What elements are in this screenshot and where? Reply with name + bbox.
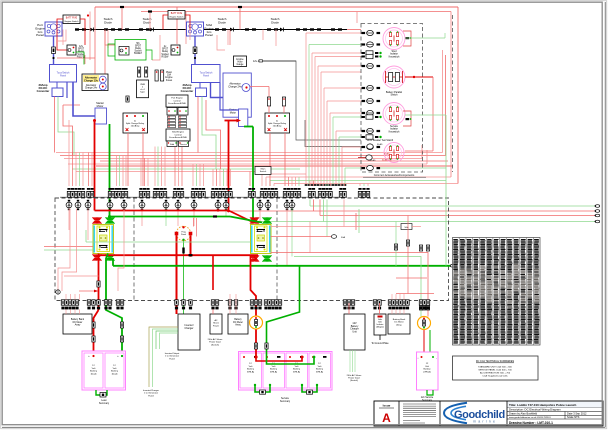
svg-text:30 AD: 30 AD — [377, 143, 383, 146]
svg-text:Panel: Panel — [148, 395, 154, 397]
svg-text:(VRLA): (VRLA) — [247, 370, 254, 373]
svg-text:(Maybe): (Maybe) — [376, 327, 384, 329]
svg-text:Charge 12v: Charge 12v — [84, 78, 99, 82]
svg-text:Charger: Charger — [184, 327, 193, 330]
svg-text:CCA: Supplied: CCA: Supplied Lead Cells — [482, 375, 508, 378]
svg-text:10A: 10A — [167, 74, 172, 77]
svg-text:Keyswitch: Keyswitch — [389, 130, 400, 133]
svg-text:Power Input: Power Input — [348, 377, 360, 380]
svg-text:www.goodchildmarine.co.uk 014: www.goodchildmarine.co.uk 01493 782301 — [509, 416, 551, 419]
svg-text:Switch: Switch — [260, 170, 267, 173]
svg-text:Battery: Battery — [270, 368, 278, 371]
svg-text:Title: Loddin 747-010 Hampshir: Title: Loddin 747-010 Hampshire Police L… — [509, 403, 576, 407]
svg-text:100 Amp: 100 Amp — [131, 125, 140, 128]
svg-text:marine: marine — [473, 420, 497, 424]
svg-text:Split Charge Relay: Split Charge Relay — [268, 122, 287, 125]
svg-text:30 AD: 30 AD — [370, 159, 376, 162]
svg-text:Battery: Battery — [316, 368, 324, 371]
svg-text:Battery Bank: Battery Bank — [71, 318, 85, 321]
svg-text:Battery: Battery — [424, 368, 432, 371]
svg-text:Charge 24v: Charge 24v — [85, 87, 98, 90]
svg-text:A: A — [382, 411, 391, 425]
svg-text:Service: Service — [180, 144, 188, 146]
svg-text:1 to Generator: 1 to Generator — [165, 355, 179, 358]
svg-text:Fuse Assm ACME: Fuse Assm ACME — [168, 102, 186, 105]
svg-text:100 Amp: 100 Amp — [273, 125, 282, 128]
svg-text:Volt: Volt — [318, 365, 322, 368]
svg-text:Engine Switch: Engine Switch — [170, 15, 185, 18]
svg-text:RS5W: RS5W — [162, 55, 170, 58]
svg-text:Panel: Panel — [36, 33, 44, 37]
svg-text:30 AD wire: 30 AD wire — [382, 159, 393, 162]
svg-text:Power Input: Power Input — [209, 341, 221, 344]
svg-text:Battery: Battery — [90, 370, 98, 373]
svg-text:Keyswitch: Keyswitch — [389, 55, 400, 58]
svg-text:AC: AC — [214, 319, 217, 322]
svg-text:GFCI Breaker Test Switch: GFCI Breaker Test Switch — [367, 139, 394, 142]
svg-text:RS5711: RS5711 — [77, 55, 86, 58]
svg-text:Volt: Volt — [295, 365, 299, 368]
svg-text:30 AD: 30 AD — [384, 153, 390, 156]
svg-text:Issue: Issue — [383, 404, 391, 408]
svg-text:SERVICE PANEL CCA: 600 +: SERVICE PANEL CCA: 600 + 700 — [478, 369, 512, 372]
svg-text:Diode: Diode — [104, 21, 112, 25]
svg-text:Battery: Battery — [247, 368, 255, 371]
svg-text:Engine Switch: Engine Switch — [65, 20, 80, 23]
svg-text:50A: 50A — [341, 236, 345, 239]
svg-text:Description: DC Electrical Wir: Description: DC Electrical Wiring Diagra… — [509, 408, 561, 412]
svg-text:Panel: Panel — [60, 75, 67, 78]
svg-text:Volt: Volt — [113, 367, 117, 370]
svg-text:Stbd: Stbd — [170, 143, 174, 146]
svg-text:(Switch): (Switch) — [350, 379, 358, 382]
svg-text:Array: Array — [75, 324, 81, 327]
svg-text:240v AC Shore: 240v AC Shore — [347, 374, 362, 377]
svg-text:STANDARD UNIT CCA: 600 +: STANDARD UNIT CCA: 600 + 600 — [478, 366, 513, 369]
svg-text:DC Meter: DC Meter — [73, 321, 83, 324]
svg-text:5920E7: 5920E7 — [134, 53, 143, 55]
svg-text:Common Accessories/Components: Common Accessories/Components — [374, 173, 415, 177]
svg-text:Inverter/Charger: Inverter/Charger — [143, 389, 159, 392]
svg-text:To Ground Plate: To Ground Plate — [371, 342, 389, 345]
svg-text:Converter: Converter — [181, 89, 194, 93]
svg-text:Power: Power — [213, 324, 219, 327]
svg-text:Battery Bank: Battery Bank — [393, 318, 406, 321]
svg-text:Panel: Panel — [181, 234, 187, 236]
svg-text:Volt: Volt — [92, 367, 96, 370]
svg-text:(VRLA): (VRLA) — [316, 370, 323, 373]
svg-text:(lead): (lead) — [91, 373, 97, 375]
svg-text:Main: Main — [261, 169, 267, 171]
svg-text:(VRLA): (VRLA) — [293, 370, 300, 373]
svg-text:Panel: Panel — [203, 75, 210, 78]
svg-text:Battery: Battery — [111, 370, 119, 373]
svg-text:Fuse Assm ACME: Fuse Assm ACME — [169, 136, 187, 139]
svg-text:Unit: Unit — [352, 330, 357, 333]
svg-text:Diode: Diode — [218, 21, 226, 25]
svg-text:Control: Control — [174, 133, 182, 136]
svg-text:Switch: Switch — [390, 94, 398, 97]
svg-text:Charge 24v: Charge 24v — [228, 85, 242, 89]
svg-text:Control: Control — [173, 99, 181, 102]
svg-text:Port Engine: Port Engine — [171, 97, 183, 100]
svg-text:Array: Array — [235, 324, 241, 327]
svg-text:Stbd Engine: Stbd Engine — [172, 131, 185, 134]
svg-text:(Switch): (Switch) — [211, 343, 219, 346]
svg-text:Drawn by Alan Bushfield: Drawn by Alan Bushfield — [509, 412, 538, 416]
svg-text:Battery: Battery — [234, 318, 242, 321]
svg-text:BATT FIVE: BATT FIVE — [66, 16, 78, 19]
svg-text:(lead): (lead) — [112, 373, 118, 375]
svg-text:(VRLA): (VRLA) — [270, 370, 277, 373]
svg-text:Volt: Volt — [249, 365, 253, 368]
svg-text:AC DISTRIBUTION: 60: AC DISTRIBUTION: 600 + 700 — [480, 372, 511, 375]
svg-text:Inverter/Output: Inverter/Output — [165, 352, 180, 355]
svg-text:Panel: Panel — [169, 358, 175, 360]
svg-text:Type: Type — [140, 92, 146, 94]
svg-text:Shore: Shore — [213, 322, 220, 325]
svg-text:Converter: Converter — [37, 89, 50, 93]
svg-text:Date 3 Sep 2012: Date 3 Sep 2012 — [567, 412, 587, 416]
svg-text:Panel: Panel — [205, 33, 213, 37]
svg-text:(VRLA): (VRLA) — [423, 370, 430, 373]
svg-text:Hour: Hour — [238, 61, 243, 64]
svg-text:1 to Generator: 1 to Generator — [144, 392, 158, 395]
svg-text:BATT FIVE: BATT FIVE — [171, 12, 183, 15]
svg-text:Summary: Summary — [99, 402, 110, 405]
svg-text:Diode: Diode — [271, 21, 279, 25]
svg-text:DC Meter: DC Meter — [233, 321, 243, 324]
svg-text:240v AC Shore: 240v AC Shore — [208, 338, 223, 341]
svg-text:Fuses: Fuses — [166, 80, 173, 82]
svg-text:Motor: Motor — [230, 111, 236, 114]
svg-text:Volt: Volt — [272, 365, 276, 368]
svg-text:Battery: Battery — [293, 368, 301, 371]
svg-text:Motor: Motor — [97, 104, 104, 108]
svg-text:Split Charge Relay: Split Charge Relay — [126, 122, 145, 125]
svg-text:Array: Array — [396, 323, 402, 326]
svg-text:DC Meter: DC Meter — [394, 321, 404, 324]
svg-text:Volt: Volt — [425, 365, 429, 368]
svg-text:Summary: Summary — [280, 400, 291, 403]
svg-text:Scale NTS: Scale NTS — [567, 415, 580, 419]
svg-text:Gauge: Gauge — [237, 64, 245, 66]
